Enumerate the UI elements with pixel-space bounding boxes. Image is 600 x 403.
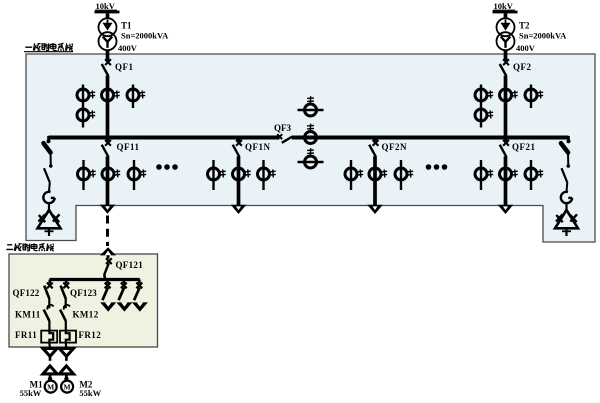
- svg-text:QF123: QF123: [70, 288, 97, 298]
- current transformer: [500, 168, 518, 180]
- feeder arrow QF1N: [231, 205, 247, 214]
- circuit breaker QF3 (bus tie): [277, 134, 292, 143]
- wire CT stub: [480, 160, 482, 190]
- wire motor branch M2 stub: [65, 280, 68, 284]
- svg-text:QF122: QF122: [13, 288, 40, 298]
- current transformer: [208, 168, 226, 180]
- wire: [567, 153, 569, 166]
- current transformer: [305, 124, 317, 144]
- 10kV busbar stub: [95, 11, 120, 14]
- wire HV lead: [106, 13, 110, 18]
- junction dot: [48, 377, 52, 381]
- svg-text:FR12: FR12: [79, 330, 102, 340]
- wire feeder QF11: [106, 156, 110, 205]
- voltage transformer coil: [43, 192, 54, 203]
- wire CT stub: [262, 160, 264, 190]
- plug-in connector upper M2: [59, 348, 73, 356]
- svg-text:KM11: KM11: [15, 310, 41, 320]
- node main 400V bus right section: [292, 136, 569, 140]
- label: primary distribution system (Chinese): [24, 43, 73, 52]
- junction dot: [567, 164, 571, 168]
- svg-text:KM12: KM12: [73, 310, 99, 320]
- wire CT stub: [82, 85, 84, 128]
- disconnect switch blade: [44, 168, 50, 182]
- PT winding delta with terminals: [38, 210, 61, 236]
- wire: [48, 321, 50, 331]
- junction dot: [567, 139, 571, 143]
- wire bus left riser: [47, 136, 50, 142]
- fuse (drop-out): [561, 143, 568, 152]
- wire CT stub: [132, 85, 134, 109]
- wire feeder QF2N stub: [373, 138, 377, 142]
- wire: [49, 356, 52, 361]
- circuit breaker QF2: [500, 59, 509, 76]
- current transformer: [345, 168, 363, 180]
- svg-text:M: M: [64, 383, 71, 392]
- svg-text:FR11: FR11: [15, 330, 37, 340]
- wire: [65, 299, 67, 309]
- wire CT stub: [212, 160, 214, 190]
- svg-text:400V: 400V: [516, 43, 536, 53]
- ellipsis dot: [434, 164, 440, 170]
- wire LV lead: [504, 50, 508, 61]
- voltage transformer coil: [561, 192, 572, 203]
- wire QF121 to bus: [103, 274, 106, 279]
- wire: [49, 374, 52, 381]
- current transformer: [77, 89, 95, 101]
- circuit breaker spare: [134, 283, 142, 301]
- cable head triangle spare: [100, 302, 116, 311]
- 10kV label underline: [493, 9, 515, 11]
- current transformer: [475, 109, 493, 121]
- wire: [566, 183, 569, 192]
- wire CT stub: [480, 85, 482, 128]
- svg-text:QF121: QF121: [116, 260, 144, 270]
- current transformer: [500, 89, 518, 101]
- wire feeder QF21: [504, 156, 508, 205]
- wire spare branch: [106, 280, 109, 284]
- ellipsis dot: [442, 164, 448, 170]
- svg-text:QF2: QF2: [513, 62, 532, 72]
- current transformer: [78, 168, 96, 180]
- current transformer: [77, 109, 95, 121]
- wire: [48, 183, 51, 192]
- wire: [65, 374, 68, 381]
- wire CT stub: [400, 160, 402, 190]
- fuse (drop-out): [44, 143, 51, 152]
- svg-text:Sn=2000kVA: Sn=2000kVA: [519, 31, 567, 41]
- CT bar upper: [298, 109, 324, 112]
- wire feeder QF21 stub: [504, 138, 508, 142]
- cable head triangle at QF121: [100, 247, 116, 258]
- current transformer: [127, 89, 145, 101]
- svg-text:T1: T1: [121, 21, 132, 31]
- circuit breaker QF122: [44, 283, 53, 299]
- node main 400V bus left section: [49, 136, 280, 140]
- current transformer: [128, 168, 146, 180]
- current transformer: [305, 148, 317, 168]
- current transformer: [369, 168, 387, 180]
- wire spare branch: [138, 280, 141, 284]
- wire: [65, 321, 67, 331]
- feeder arrow QF11 (to secondary): [100, 205, 116, 214]
- current transformer: [305, 96, 317, 116]
- svg-text:T2: T2: [519, 21, 530, 31]
- current transformer: [475, 89, 493, 101]
- svg-text:QF2N: QF2N: [382, 142, 408, 152]
- wire: [48, 299, 50, 309]
- wire: [65, 343, 68, 350]
- wire CT stub: [530, 85, 532, 109]
- wire QF1 feeder to bus: [106, 76, 110, 138]
- junction dot: [47, 139, 51, 143]
- current transformer: [525, 168, 543, 180]
- current transformer: [102, 89, 120, 101]
- circuit breaker QF1: [102, 59, 111, 76]
- circuit breaker QF2N: [369, 140, 378, 157]
- svg-text:QF1N: QF1N: [245, 142, 271, 152]
- wire CT stub: [82, 160, 84, 190]
- PT winding delta with terminals: [555, 210, 578, 236]
- circuit breaker QF123: [61, 283, 70, 299]
- ellipsis dot: [156, 164, 162, 170]
- plug-in connector lower M1: [43, 366, 57, 374]
- circuit breaker QF11: [102, 140, 111, 157]
- wire: [565, 203, 567, 210]
- svg-text:10kV: 10kV: [494, 1, 514, 11]
- current transformer: [475, 168, 493, 180]
- circuit breaker QF1N: [233, 140, 242, 157]
- circuit breaker spare: [119, 283, 127, 301]
- wire motor branch M1 stub: [48, 280, 51, 284]
- cable head triangle spare: [132, 302, 148, 311]
- 10kV label underline: [95, 9, 117, 11]
- wire: [48, 343, 51, 350]
- svg-text:400V: 400V: [118, 43, 138, 53]
- wire HV lead: [504, 13, 508, 18]
- thermal relay FR11: [41, 330, 57, 343]
- svg-text:QF3: QF3: [274, 123, 291, 133]
- ellipsis dot: [164, 164, 170, 170]
- circuit breaker QF121: [104, 258, 112, 275]
- svg-text:55kW: 55kW: [20, 388, 42, 398]
- motor M2: [61, 381, 73, 393]
- wire CT stub: [133, 160, 135, 190]
- transformer T1: [99, 18, 117, 50]
- transformer T2: [497, 18, 515, 50]
- ellipsis dot: [426, 164, 432, 170]
- svg-text:55kW: 55kW: [79, 388, 101, 398]
- current transformer: [102, 168, 120, 180]
- current transformer: [395, 168, 413, 180]
- wire bus right riser: [567, 136, 570, 142]
- wire CT stub: [350, 160, 352, 190]
- wire feeder QF11 stub: [106, 138, 110, 142]
- svg-text:M: M: [47, 383, 54, 392]
- feeder arrow QF2N: [367, 205, 383, 214]
- disconnect switch blade: [562, 168, 568, 182]
- primary distribution zone box: [26, 54, 595, 242]
- current transformer: [258, 168, 276, 180]
- node secondary bus: [50, 278, 140, 281]
- svg-text:10kV: 10kV: [96, 1, 116, 11]
- wire QF2 feeder to bus: [504, 76, 508, 138]
- contactor KM11: [44, 305, 54, 321]
- wire dashed link to secondary: [106, 216, 109, 247]
- wire: [48, 203, 50, 210]
- current transformer: [525, 89, 543, 101]
- CT bar lower: [298, 161, 324, 164]
- circuit breaker QF21: [500, 140, 509, 157]
- wire spare branch: [123, 280, 126, 284]
- contactor KM12: [60, 305, 70, 321]
- wire feeder QF1N stub: [237, 138, 241, 142]
- circuit breaker spare: [102, 283, 110, 301]
- wire feeder QF1N: [237, 156, 241, 205]
- ellipsis dot: [172, 164, 178, 170]
- junction dot: [64, 377, 68, 381]
- motor M1: [45, 381, 57, 393]
- svg-text:Sn=2000kVA: Sn=2000kVA: [121, 31, 169, 41]
- 10kV busbar stub: [493, 11, 518, 14]
- feeder arrow QF21: [498, 205, 514, 214]
- label: secondary distribution system (Chinese): [6, 243, 54, 251]
- wire LV lead: [106, 50, 110, 61]
- junction dot: [49, 164, 53, 168]
- wire: [50, 153, 52, 166]
- wire CT stub: [530, 160, 532, 190]
- wire feeder QF2N: [373, 156, 377, 205]
- plug-in connector upper M1: [43, 348, 57, 356]
- secondary distribution zone box: [9, 254, 158, 347]
- svg-text:QF21: QF21: [512, 142, 536, 152]
- plug-in connector lower M2: [59, 366, 73, 374]
- svg-text:QF1: QF1: [115, 62, 134, 72]
- thermal relay FR12: [60, 330, 76, 343]
- wire: [65, 356, 68, 361]
- current transformer: [233, 168, 251, 180]
- svg-text:QF11: QF11: [117, 142, 140, 152]
- cable head triangle spare: [116, 302, 132, 311]
